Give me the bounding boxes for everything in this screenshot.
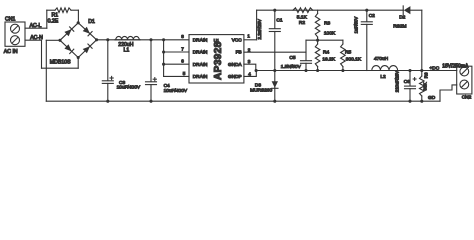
svg-text:4: 4	[248, 72, 251, 77]
svg-text:8: 8	[181, 34, 184, 39]
svg-text:1: 1	[247, 33, 250, 38]
svg-text:5.1K: 5.1K	[297, 14, 308, 20]
svg-text:C1: C1	[276, 18, 282, 24]
svg-text:220uF/25V: 220uF/25V	[394, 71, 399, 93]
svg-text:1uF/50V: 1uF/50V	[354, 17, 359, 34]
svg-text:+DC: +DC	[430, 66, 440, 72]
svg-text:C5: C5	[289, 55, 295, 61]
svg-text:3: 3	[248, 59, 251, 64]
svg-text:68K: 68K	[423, 81, 428, 90]
svg-text:MURS260: MURS260	[250, 87, 272, 93]
svg-text:2: 2	[248, 47, 251, 52]
svg-text:R2: R2	[299, 20, 305, 26]
svg-text:L1: L1	[124, 47, 130, 53]
svg-text:DRAIN: DRAIN	[193, 38, 208, 43]
svg-text:16.2K: 16.2K	[322, 57, 335, 63]
svg-text:R4: R4	[323, 49, 329, 55]
svg-text:DRAIN: DRAIN	[193, 74, 208, 79]
svg-text:DRAIN: DRAIN	[193, 50, 208, 55]
svg-text:10uF/400V: 10uF/400V	[164, 88, 188, 94]
svg-text:AC-L: AC-L	[30, 23, 42, 29]
svg-text:0.2E: 0.2E	[48, 18, 59, 24]
svg-text:DRAIN: DRAIN	[193, 62, 208, 67]
svg-text:10uF/400V: 10uF/400V	[117, 85, 141, 91]
svg-text:100K: 100K	[324, 30, 336, 36]
svg-text:5: 5	[183, 71, 186, 76]
svg-text:GD: GD	[428, 95, 436, 101]
svg-text:D2: D2	[399, 14, 405, 20]
svg-text:VCC: VCC	[232, 38, 243, 43]
svg-text:6: 6	[181, 59, 184, 64]
svg-text:R6: R6	[423, 72, 428, 78]
svg-text:CN1: CN1	[5, 16, 15, 22]
svg-text:CN2: CN2	[462, 95, 472, 101]
svg-text:GNDA: GNDA	[228, 62, 242, 67]
svg-text:7: 7	[181, 46, 184, 51]
svg-text:300.1K: 300.1K	[346, 57, 362, 63]
svg-text:470uH: 470uH	[374, 56, 389, 62]
svg-text:L2: L2	[380, 74, 386, 80]
svg-text:C2: C2	[369, 13, 375, 19]
svg-text:R3: R3	[324, 21, 330, 27]
svg-text:AC-N: AC-N	[30, 35, 43, 41]
svg-text:AP3928: AP3928	[213, 41, 224, 80]
svg-text:RS2M: RS2M	[393, 24, 406, 30]
svg-text:FB: FB	[236, 50, 242, 55]
svg-text:C6: C6	[404, 79, 410, 85]
svg-text:2.2uF/25V: 2.2uF/25V	[257, 19, 262, 39]
svg-text:R5: R5	[345, 49, 351, 55]
svg-text:1.5N/50V: 1.5N/50V	[281, 64, 302, 70]
svg-text:MDB10S: MDB10S	[50, 60, 71, 66]
svg-text:AC IN: AC IN	[4, 49, 18, 55]
svg-text:D1: D1	[88, 19, 95, 25]
svg-text:GNDP: GNDP	[228, 74, 242, 79]
